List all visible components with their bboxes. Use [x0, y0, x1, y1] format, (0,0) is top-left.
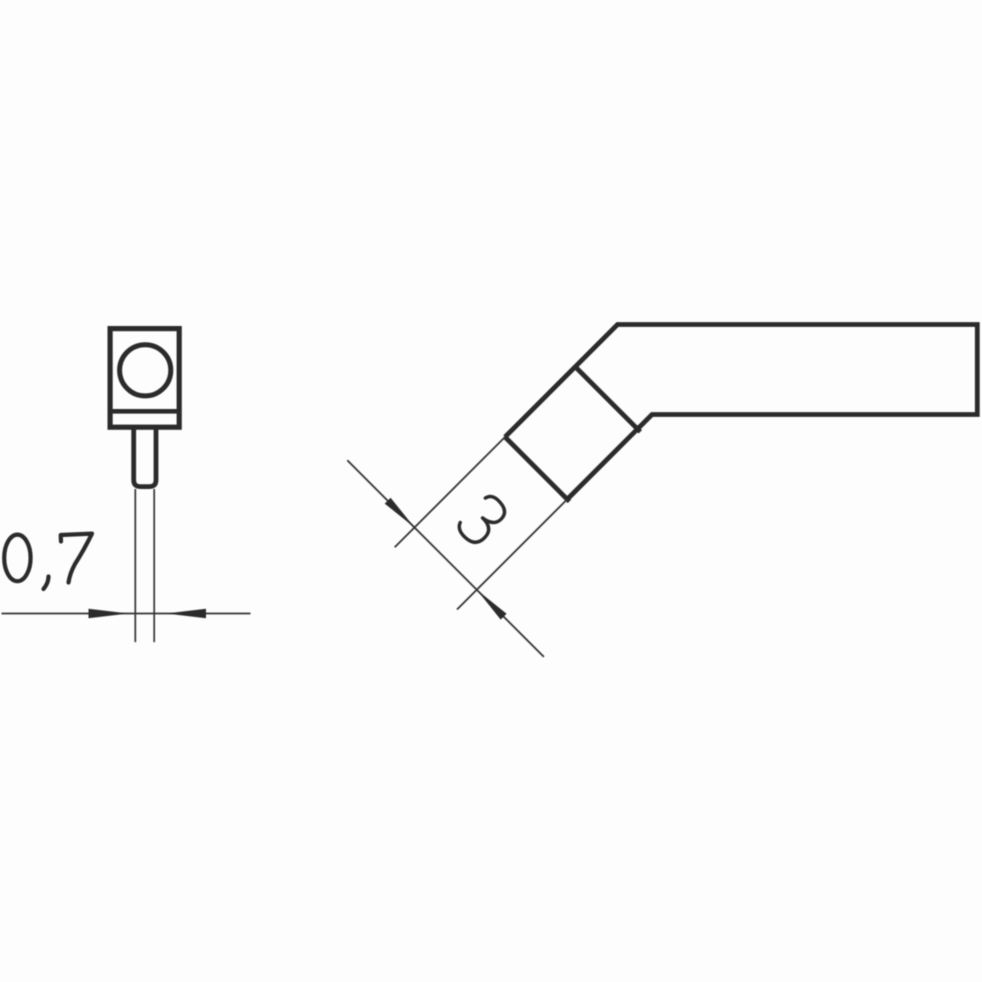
label comma of 0,7	[44, 577, 49, 590]
front view: stem outline	[134, 427, 156, 486]
label 7 of 0,7	[61, 534, 92, 583]
front view: thin tip wire left edge	[134, 489, 136, 642]
side view: thin tip bottom edge with extension	[457, 499, 567, 609]
front view: head inner line	[112, 409, 177, 414]
arrowhead left of 0,7 dimension	[89, 609, 129, 619]
side view: separation line P1	[574, 366, 640, 432]
front view: tip head outline	[110, 329, 179, 428]
side view: separation line P2	[505, 437, 569, 501]
arrowhead lower of 3 dimension	[477, 590, 507, 620]
label 3 (rotated 45deg)	[455, 492, 510, 547]
arrowhead right of 0,7 dimension	[166, 609, 206, 619]
arrowhead upper of 3 dimension	[385, 498, 415, 528]
front view: thin tip wire right edge	[153, 489, 155, 642]
side view: thin tip top edge with extension	[395, 437, 505, 547]
label 0 of 0,7	[4, 535, 30, 582]
side view: shaft and bent arm thick outline	[505, 325, 977, 500]
front view: sensor circle	[120, 345, 171, 396]
dimension line 0,7	[2, 613, 251, 615]
dimension line 3 (along tip end face)	[347, 460, 544, 657]
